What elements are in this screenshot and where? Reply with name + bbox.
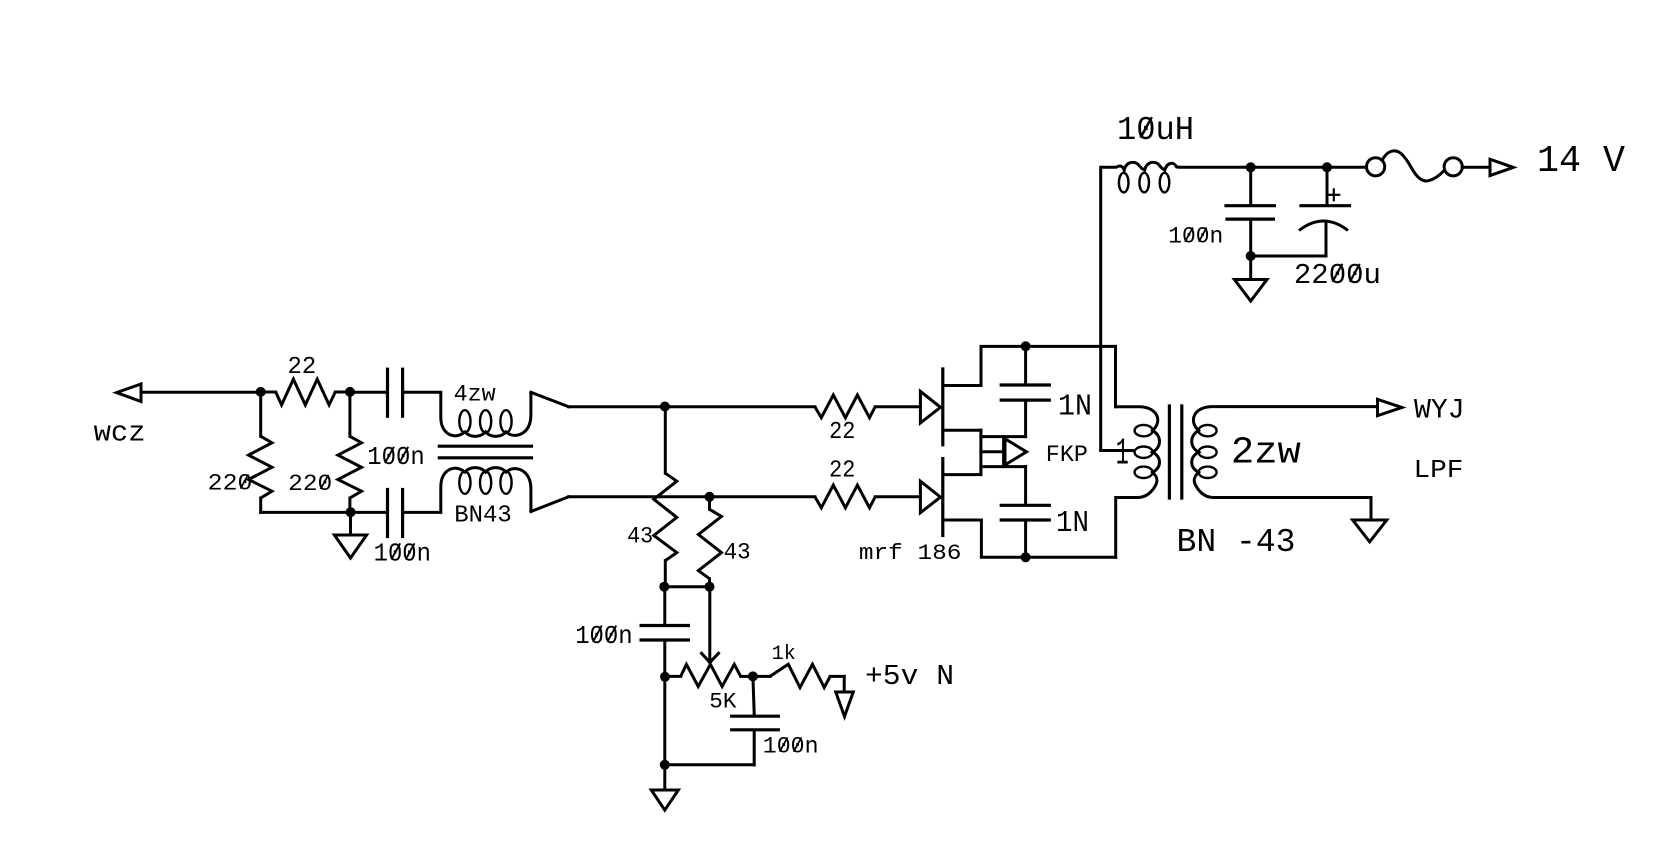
resistor R 43 (right) <box>708 497 711 510</box>
resistor R 220 (left shunt) <box>259 392 262 436</box>
svg-text:100n: 100n <box>367 442 424 472</box>
capacitor C 1N (bottom) <box>1024 467 1027 504</box>
transformer T1 input balun, primary winding (top) <box>441 392 531 436</box>
wire: to bottom gate arrow <box>875 495 920 498</box>
wire: input to R network <box>141 391 261 394</box>
wire: bias node link <box>664 585 709 588</box>
junction: bottom 1N cap <box>1021 552 1031 562</box>
ground (+5v reference) <box>836 692 854 717</box>
svg-text:100n: 100n <box>575 621 633 651</box>
svg-text:43: 43 <box>724 540 751 566</box>
svg-text:1N: 1N <box>1058 390 1092 425</box>
resistor R 43 (left) <box>664 407 667 474</box>
junction: bias right / wiper <box>705 582 715 592</box>
transformer T2 primary winding (left) <box>1116 407 1160 498</box>
node source/drain tie bar <box>979 430 982 474</box>
node 14 V supply terminal arrow <box>1490 159 1513 175</box>
wire: top drain rail <box>981 345 1116 348</box>
svg-text:wcz: wcz <box>94 417 146 450</box>
transistor Q1 mrf 186 (top MOSFET) gate bar <box>941 369 944 445</box>
svg-text:10uH: 10uH <box>1117 112 1194 149</box>
node WYJ output arrow <box>1378 399 1402 415</box>
wire: bottom of shunt resistors <box>261 511 387 514</box>
transformer T2 core <box>1168 406 1171 498</box>
svg-text:100n: 100n <box>763 734 819 760</box>
wire: center tap feed to output transformer <box>1101 449 1134 452</box>
junction: 100n / rail <box>1246 162 1256 172</box>
junction: after R22 <box>345 387 355 397</box>
resistor R 220 (right shunt) <box>348 392 351 436</box>
junction: bias gnd node <box>660 760 670 770</box>
junction: bias left <box>659 582 669 592</box>
junction: input node <box>256 387 266 397</box>
node wcz input terminal arrow <box>117 384 141 402</box>
svg-text:14 V: 14 V <box>1537 140 1625 183</box>
junction: R43 left tap <box>660 402 670 412</box>
capacitor C 100n (bias decoupling) <box>663 587 666 624</box>
svg-text:43: 43 <box>627 524 653 550</box>
wire: drain rail drop to transformer top <box>1114 346 1117 406</box>
wire: transformer bottom-left drop <box>1114 498 1117 558</box>
node +14V supply line (vertical from inductor down to transformer center tap) <box>1099 167 1102 450</box>
junction: top 1N cap <box>1021 341 1031 351</box>
transistor Q2 drain lead <box>944 473 981 476</box>
svg-text:100n: 100n <box>1168 224 1223 250</box>
svg-text:220: 220 <box>288 471 332 497</box>
svg-text:1N: 1N <box>1056 506 1089 541</box>
potentiometer wiper arrow <box>708 587 711 662</box>
wire: caps bottom link <box>1251 255 1326 258</box>
transistor Q1 drain lead <box>944 346 981 385</box>
resistor R 22 (series input) <box>261 391 276 394</box>
wire: 1k to +5v ground stub <box>843 676 846 692</box>
junction: gnd node <box>1246 251 1256 261</box>
svg-text:220: 220 <box>208 471 253 497</box>
svg-text:100n: 100n <box>374 539 431 569</box>
svg-text:22: 22 <box>829 458 855 485</box>
svg-text:2200u: 2200u <box>1294 259 1381 292</box>
transformer T1 core <box>439 445 531 448</box>
svg-text:BN -43: BN -43 <box>1177 524 1296 561</box>
wire: bottom source rail <box>981 556 1115 559</box>
transistor Q2 mrf 186 (bottom MOSFET) gate bar <box>941 459 944 536</box>
svg-text:1: 1 <box>1116 433 1129 476</box>
svg-text:22: 22 <box>829 419 855 446</box>
svg-text:22: 22 <box>288 354 317 381</box>
capacitor C 2200u electrolytic <box>1326 167 1329 203</box>
wire: supply rail to fuse <box>1180 166 1367 169</box>
wire: taper top diagonal <box>531 392 569 406</box>
resistor R 1k <box>770 664 830 687</box>
wire: fuse to output arrow <box>1462 166 1489 169</box>
junction: pot left <box>660 672 670 682</box>
capacitor C 100n (supply decoupling) <box>1249 167 1252 203</box>
svg-text:1k: 1k <box>772 643 796 666</box>
wire: bottom phase line to gate <box>569 495 815 498</box>
junction: gnd node input <box>346 507 356 517</box>
capacitor C 100n (bottom coupling) <box>386 490 389 537</box>
wire: taper bottom diagonal <box>531 497 569 512</box>
node FKP feedback arrow <box>981 435 1026 438</box>
svg-text:4zw: 4zw <box>454 382 496 408</box>
wire: secondary bottom to ground <box>1235 496 1371 499</box>
svg-text:FKP: FKP <box>1046 442 1088 468</box>
node gate drive arrow (top) <box>920 391 940 423</box>
fuse F1 <box>1367 158 1385 176</box>
inductor L1 10uH <box>1101 162 1180 170</box>
transistor Q1 source lead <box>944 429 981 432</box>
wire: to top gate arrow <box>875 405 920 408</box>
polarity plus sign <box>1328 194 1339 196</box>
capacitor C 1N (top) <box>1024 346 1027 383</box>
transformer T1 secondary winding (bottom) <box>441 468 531 512</box>
resistor R 22 (top gate) <box>815 395 875 418</box>
svg-text:BN43: BN43 <box>454 503 511 530</box>
svg-text:+5v N: +5v N <box>865 660 954 693</box>
resistor R 22 (bottom gate) <box>815 485 875 508</box>
svg-text:WYJ: WYJ <box>1414 396 1465 427</box>
wire: top phase line to gate <box>569 405 815 408</box>
capacitor C 100n (top coupling) <box>350 391 387 394</box>
ground (output) <box>1353 520 1387 542</box>
svg-text:5K: 5K <box>709 690 737 715</box>
junction: 2200u / rail <box>1322 162 1332 172</box>
wire: bias return <box>665 763 754 766</box>
capacitor C 100n (wiper filter) <box>753 676 754 714</box>
junction: R43 right tap <box>705 492 715 502</box>
svg-text:2zw: 2zw <box>1231 431 1301 474</box>
ground (input network) <box>349 512 352 534</box>
transformer T2 secondary winding (right) <box>1192 407 1235 498</box>
junction: pot right <box>748 671 758 681</box>
svg-text:LPF: LPF <box>1414 455 1464 485</box>
wire: pot to R 1k <box>753 675 770 678</box>
ground (supply filter) <box>1249 256 1252 280</box>
svg-text:mrf 186: mrf 186 <box>859 541 962 566</box>
transistor Q2 source lead <box>944 520 981 557</box>
wire: secondary top to WYJ <box>1235 405 1377 408</box>
node gate drive arrow (bottom) <box>920 481 940 513</box>
ground (bias network) <box>663 765 666 790</box>
